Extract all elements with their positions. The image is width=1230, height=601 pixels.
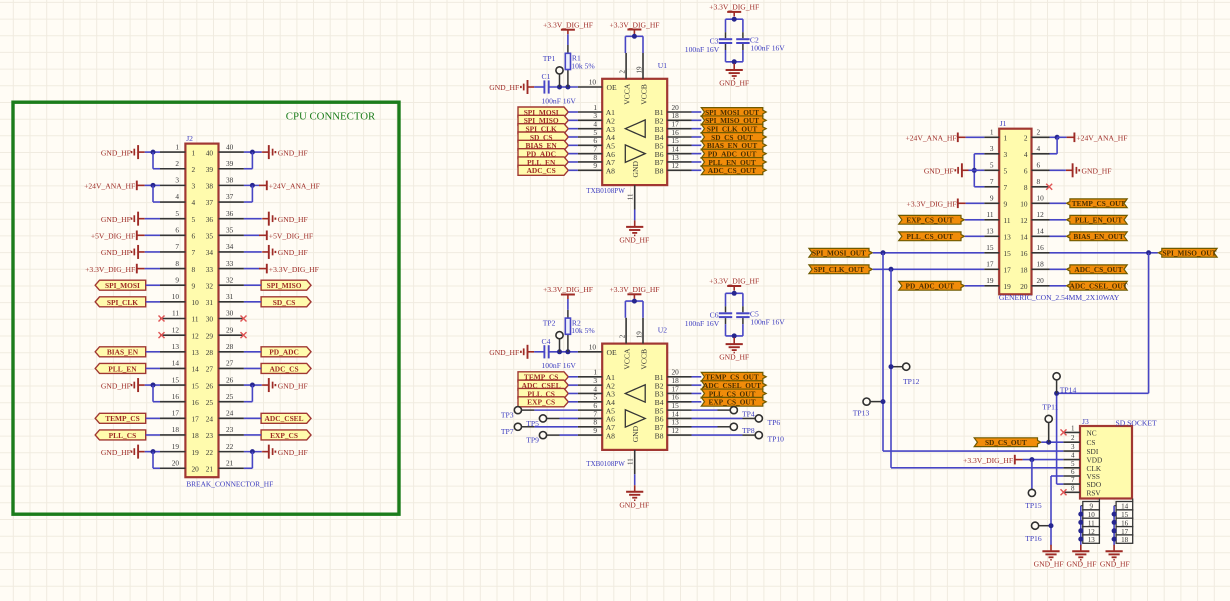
svg-text:+5V_DIG_HF: +5V_DIG_HF	[269, 232, 313, 241]
svg-text:ADC_CS_OUT: ADC_CS_OUT	[1074, 265, 1122, 274]
power port GND_HF (bars)	[955, 163, 968, 177]
port ADC_CS	[261, 363, 311, 373]
wire	[244, 367, 261, 369]
wire	[244, 168, 253, 170]
wire	[244, 268, 260, 270]
svg-text:18: 18	[192, 431, 200, 440]
svg-text:40: 40	[206, 148, 214, 157]
test point TP14	[1053, 373, 1060, 380]
port SPI_CLK_OUT	[701, 124, 766, 133]
svg-text:32: 32	[206, 281, 214, 290]
J3 mount pins 14-18	[1114, 502, 1133, 545]
svg-text:TP7: TP7	[501, 427, 514, 436]
connector J3 body	[1080, 426, 1132, 499]
svg-text:39: 39	[206, 165, 214, 174]
wire	[244, 301, 261, 303]
svg-text:18: 18	[1121, 536, 1129, 544]
test point TP1	[556, 67, 563, 74]
port TEMP_CS_OUT	[1067, 199, 1128, 208]
svg-text:6: 6	[1024, 167, 1028, 176]
port PLL_EN	[95, 363, 146, 373]
svg-text:BIAS_EN_OUT: BIAS_EN_OUT	[1073, 232, 1123, 241]
junction	[250, 150, 255, 155]
wire	[692, 417, 743, 419]
svg-text:7: 7	[1004, 183, 1008, 192]
wire	[1098, 499, 1100, 502]
junction	[889, 267, 894, 272]
port SPI_MOSI_OUT	[809, 248, 873, 257]
svg-text:GND_HF: GND_HF	[101, 448, 131, 457]
pins B1-B8 of U1	[655, 103, 692, 176]
wire	[1050, 153, 1058, 155]
power port GND_HF (bars)	[132, 212, 145, 226]
wire	[568, 144, 578, 146]
junction	[565, 85, 570, 90]
svg-text:PLL_CS_OUT: PLL_CS_OUT	[907, 232, 954, 241]
svg-text:10: 10	[172, 292, 180, 301]
connector J2 body	[185, 144, 218, 478]
svg-text:VCCA: VCCA	[622, 83, 631, 105]
junction	[889, 364, 894, 369]
wire	[145, 184, 160, 186]
wire	[251, 185, 253, 202]
junction	[881, 250, 886, 255]
power port GND_HF (bars)	[262, 378, 275, 392]
wire	[146, 417, 160, 419]
svg-text:11: 11	[627, 193, 635, 200]
svg-text:33: 33	[226, 259, 234, 268]
power port GND_HF (earth)	[1072, 545, 1089, 560]
svg-text:PLL_EN_OUT: PLL_EN_OUT	[1075, 216, 1123, 225]
CPU connector green box	[13, 102, 399, 514]
wire	[244, 218, 262, 220]
wire	[251, 385, 253, 402]
junction	[151, 383, 156, 388]
svg-text:11: 11	[627, 458, 635, 465]
svg-text:GND: GND	[631, 161, 640, 178]
svg-text:19: 19	[636, 66, 644, 74]
no-ERC cross	[1061, 489, 1067, 495]
svg-text:17: 17	[192, 415, 200, 424]
port SPI_CLK	[518, 124, 568, 134]
svg-text:TP13: TP13	[853, 409, 870, 418]
wire	[567, 34, 569, 45]
wire	[726, 18, 743, 20]
wire	[244, 234, 260, 236]
wire	[152, 452, 154, 469]
IC U2 body	[602, 344, 667, 450]
svg-text:18: 18	[172, 425, 180, 434]
no-ERC cross	[241, 316, 247, 322]
svg-text:12: 12	[192, 331, 200, 340]
svg-text:20: 20	[1037, 276, 1045, 285]
junction	[732, 291, 737, 296]
svg-text:GND_HF: GND_HF	[719, 352, 749, 361]
svg-text:+5V_DIG_HF: +5V_DIG_HF	[91, 232, 135, 241]
svg-text:ADC_CS: ADC_CS	[269, 364, 298, 373]
svg-text:13: 13	[172, 342, 180, 351]
junction	[1078, 520, 1083, 525]
svg-text:+3.3V_DIG_HF: +3.3V_DIG_HF	[963, 456, 1013, 465]
svg-text:22: 22	[226, 442, 234, 451]
svg-text:14: 14	[172, 359, 180, 368]
svg-text:TEMP_CS: TEMP_CS	[105, 414, 140, 423]
wire	[725, 19, 727, 32]
svg-text:CS: CS	[1087, 438, 1096, 447]
wire	[692, 392, 702, 394]
J3 mount pins 9-13	[1081, 502, 1100, 545]
svg-text:VCCA: VCCA	[622, 348, 631, 370]
port SD_CS	[518, 132, 568, 142]
wire	[1080, 506, 1082, 546]
power port GND_HF (earth)	[1106, 545, 1123, 560]
svg-text:13: 13	[192, 348, 200, 357]
port BIAS_EN	[95, 347, 146, 357]
wire	[534, 351, 544, 353]
svg-text:12: 12	[672, 161, 680, 170]
svg-text:19: 19	[172, 442, 180, 451]
svg-text:17: 17	[986, 260, 994, 269]
svg-text:2: 2	[175, 159, 179, 168]
port PD_ADC	[518, 149, 568, 159]
svg-text:SPI_CLK: SPI_CLK	[107, 298, 138, 307]
port BIAS_EN_OUT	[1067, 232, 1128, 241]
svg-text:B8: B8	[655, 431, 664, 440]
buffer triangle (left-pointing)	[625, 385, 645, 402]
svg-text:100nF 16V: 100nF 16V	[750, 43, 785, 52]
wire	[1081, 521, 1083, 523]
port ADC_CSEL_OUT	[1067, 281, 1128, 290]
svg-text:17: 17	[1004, 266, 1012, 275]
svg-text:7: 7	[175, 242, 179, 251]
power port (bar)	[1067, 133, 1075, 143]
wire	[534, 86, 544, 88]
port TEMP_CS	[518, 372, 568, 382]
power port (bar)	[958, 133, 966, 143]
wire	[146, 367, 160, 369]
junction	[557, 85, 562, 90]
junction	[151, 150, 156, 155]
svg-text:31: 31	[206, 298, 214, 307]
svg-text:16: 16	[1037, 243, 1045, 252]
svg-text:TP12: TP12	[903, 377, 920, 386]
net SPI_MOSI wire (J1.15 to J3.SDI)	[882, 253, 884, 451]
test point TP6	[755, 415, 762, 422]
svg-text:TP6: TP6	[768, 418, 781, 427]
svg-text:C1: C1	[542, 72, 551, 81]
svg-text:RSV: RSV	[1087, 488, 1102, 497]
wire	[568, 153, 578, 155]
wire	[974, 153, 984, 155]
svg-text:GENERIC_CON_2.54MM_2X10WAY: GENERIC_CON_2.54MM_2X10WAY	[999, 293, 1120, 302]
wire	[244, 251, 262, 253]
svg-text:GND_HF: GND_HF	[1100, 559, 1130, 568]
power port (bar)	[1015, 455, 1023, 465]
svg-text:+3.3V_DIG_HF: +3.3V_DIG_HF	[543, 285, 593, 294]
svg-text:35: 35	[206, 232, 214, 241]
wire	[153, 201, 160, 203]
wire	[743, 417, 756, 419]
wire	[251, 152, 253, 169]
wire	[1050, 136, 1058, 138]
svg-text:GND_HF: GND_HF	[278, 148, 308, 157]
port SPI_CLK_OUT	[809, 265, 873, 274]
wire	[560, 417, 578, 419]
wire	[560, 434, 578, 436]
svg-text:19: 19	[986, 276, 994, 285]
svg-text:OE: OE	[607, 83, 617, 92]
wire	[692, 136, 702, 138]
svg-text:16: 16	[192, 398, 200, 407]
power port GND_HF (bars)	[1066, 163, 1079, 177]
svg-text:1: 1	[175, 142, 179, 151]
svg-text:15: 15	[172, 375, 180, 384]
svg-text:EXP_CS_OUT: EXP_CS_OUT	[906, 216, 953, 225]
wire	[742, 50, 744, 62]
port ADC_CS_OUT	[701, 166, 766, 175]
wire	[568, 161, 578, 163]
pin 19 VCCB of U1	[636, 53, 649, 105]
wire	[718, 409, 731, 411]
svg-text:OE: OE	[607, 348, 617, 357]
svg-text:8: 8	[1071, 484, 1075, 492]
test point TP10	[755, 432, 762, 439]
svg-text:B8: B8	[655, 167, 664, 176]
wire	[567, 299, 569, 310]
svg-text:5: 5	[175, 209, 179, 218]
svg-text:GND_HF: GND_HF	[619, 236, 649, 245]
svg-text:4: 4	[175, 192, 179, 201]
wire	[870, 401, 883, 403]
svg-text:3: 3	[192, 182, 196, 191]
wire	[692, 434, 743, 436]
svg-text:SPI_MISO_OUT: SPI_MISO_OUT	[1162, 249, 1216, 258]
wire	[625, 35, 643, 37]
svg-text:2: 2	[192, 165, 196, 174]
svg-text:A8: A8	[606, 167, 615, 176]
junction	[1112, 512, 1117, 517]
svg-text:29: 29	[206, 331, 214, 340]
wire	[244, 451, 262, 453]
wire	[244, 434, 261, 436]
wire	[1039, 525, 1052, 527]
test point TP9	[539, 432, 546, 439]
wire	[1114, 530, 1116, 532]
port PLL_CS	[518, 388, 568, 398]
capacitor C4	[542, 337, 577, 370]
capacitor C3	[685, 37, 732, 54]
wire	[145, 268, 160, 270]
svg-text:GND_HF: GND_HF	[1034, 559, 1064, 568]
svg-text:GND_HF: GND_HF	[101, 148, 131, 157]
svg-text:37: 37	[206, 198, 214, 207]
port BIAS_EN_OUT	[701, 141, 766, 150]
svg-text:C4: C4	[542, 337, 551, 346]
junction	[1078, 512, 1083, 517]
svg-text:BREAK_CONNECTOR_HF: BREAK_CONNECTOR_HF	[186, 480, 273, 489]
pin 2 VCCA of U1	[619, 53, 632, 105]
svg-text:28: 28	[226, 342, 234, 351]
svg-text:GND_HF: GND_HF	[924, 167, 954, 176]
svg-text:ADC_CS: ADC_CS	[527, 166, 556, 175]
wire	[692, 401, 702, 403]
svg-text:PD_ADC_OUT: PD_ADC_OUT	[906, 282, 955, 291]
wire	[244, 284, 261, 286]
svg-text:13: 13	[1088, 536, 1096, 544]
wire	[568, 111, 578, 113]
svg-text:+3.3V_DIG_HF: +3.3V_DIG_HF	[269, 265, 319, 274]
wire	[1113, 506, 1115, 546]
power port GND_HF (bars)	[262, 212, 275, 226]
svg-text:14: 14	[1020, 233, 1028, 242]
buffer triangle (right-pointing)	[625, 145, 645, 162]
wire	[152, 385, 154, 402]
wire	[725, 324, 727, 336]
wire	[152, 185, 154, 202]
wire	[634, 474, 636, 485]
svg-text:37: 37	[226, 192, 234, 201]
wire	[568, 119, 578, 121]
svg-text:GND_HF: GND_HF	[1082, 167, 1112, 176]
wire	[965, 219, 984, 221]
junction	[250, 383, 255, 388]
wire	[1050, 235, 1067, 237]
wire	[692, 144, 702, 146]
junction	[1055, 135, 1060, 140]
wire	[742, 306, 744, 312]
svg-text:10k 5%: 10k 5%	[571, 61, 595, 70]
junction	[632, 299, 637, 304]
net SPI_MISO wire (J1.16 to J3.SDO)	[1148, 253, 1150, 393]
wire	[742, 19, 744, 32]
port ADC_CSEL	[518, 380, 568, 390]
wire	[692, 409, 718, 411]
svg-text:GND_HF: GND_HF	[489, 83, 519, 92]
wire	[1132, 499, 1134, 502]
test point TP2	[556, 332, 563, 339]
svg-text:26: 26	[226, 375, 234, 384]
svg-text:4: 4	[1071, 452, 1075, 460]
wire	[244, 417, 261, 419]
wire	[965, 285, 984, 287]
wire	[153, 467, 160, 469]
power port +3.3V_DIG_HF (bar)	[627, 294, 641, 299]
port SPI_MISO_OUT	[701, 116, 766, 125]
J3 pins 1-8	[1063, 424, 1102, 497]
wire	[692, 119, 702, 121]
svg-text:GND_HF: GND_HF	[101, 248, 131, 257]
wire	[974, 186, 984, 188]
wire	[559, 74, 561, 87]
junction	[732, 59, 737, 64]
svg-text:100nF 16V: 100nF 16V	[542, 96, 577, 105]
svg-text:EXP_CS: EXP_CS	[527, 398, 555, 407]
J1 even pins (right)	[1020, 128, 1049, 292]
junction	[1146, 250, 1151, 255]
wire	[145, 234, 160, 236]
svg-text:TXB0108PW: TXB0108PW	[586, 459, 625, 468]
port EXP_CS	[261, 430, 311, 440]
svg-text:11: 11	[172, 309, 179, 318]
svg-text:3: 3	[990, 144, 994, 153]
svg-text:9: 9	[593, 161, 597, 170]
wire	[1031, 460, 1033, 490]
svg-text:31: 31	[226, 292, 234, 301]
svg-text:ADC_CSEL_OUT: ADC_CSEL_OUT	[1070, 282, 1128, 291]
svg-text:U1: U1	[658, 61, 667, 70]
svg-text:TP10: TP10	[768, 434, 785, 443]
svg-text:15: 15	[192, 381, 200, 390]
svg-text:TP4: TP4	[742, 409, 755, 418]
svg-text:TP11: TP11	[1042, 402, 1058, 411]
wire	[1081, 513, 1083, 515]
junction	[565, 349, 570, 354]
port SPI_MOSI	[518, 107, 568, 117]
wire	[546, 417, 559, 419]
wire	[146, 301, 160, 303]
svg-text:8: 8	[192, 265, 196, 274]
svg-text:SD SOCKET: SD SOCKET	[1116, 419, 1158, 428]
svg-text:22: 22	[206, 448, 214, 457]
junction	[250, 449, 255, 454]
svg-text:TP14: TP14	[1060, 385, 1077, 394]
resistor R2	[565, 310, 595, 352]
wire	[692, 111, 702, 113]
svg-text:20: 20	[1020, 282, 1028, 291]
wire	[873, 252, 984, 254]
svg-text:19: 19	[1004, 282, 1012, 291]
svg-text:SPI_MOSI: SPI_MOSI	[105, 281, 140, 290]
svg-text:7: 7	[990, 177, 994, 186]
wire	[521, 426, 534, 428]
svg-text:SD_CS: SD_CS	[273, 298, 296, 307]
IC U1 body	[602, 79, 667, 185]
svg-text:30: 30	[226, 309, 234, 318]
svg-text:+3.3V_DIG_HF: +3.3V_DIG_HF	[609, 20, 659, 29]
no-ERC cross	[159, 316, 165, 322]
svg-text:CPU CONNECTOR: CPU CONNECTOR	[286, 110, 376, 122]
wire	[1081, 530, 1083, 532]
svg-text:+3.3V_DIG_HF: +3.3V_DIG_HF	[709, 2, 759, 11]
wire	[1114, 538, 1116, 540]
junction	[557, 349, 562, 354]
port ADC_CS_OUT	[1067, 265, 1128, 274]
svg-text:34: 34	[226, 242, 234, 251]
svg-text:+24V_ANA_HF: +24V_ANA_HF	[84, 182, 135, 191]
svg-text:ADC_CSEL: ADC_CSEL	[265, 414, 304, 423]
wire	[145, 151, 160, 153]
power port GND_HF (earth)	[626, 485, 643, 500]
wire	[742, 44, 744, 50]
power port GND_HF (bars)	[132, 445, 145, 459]
wire	[1056, 380, 1058, 394]
svg-text:25: 25	[206, 398, 214, 407]
wire	[244, 151, 262, 153]
svg-text:5: 5	[192, 215, 196, 224]
port PLL_CS_OUT	[701, 389, 766, 398]
wire	[1114, 505, 1116, 507]
port TEMP_CS_OUT	[701, 372, 766, 381]
svg-text:6: 6	[1037, 161, 1041, 170]
svg-text:1: 1	[1004, 134, 1008, 143]
port PD_ADC_OUT	[701, 149, 766, 158]
svg-text:GND_HF: GND_HF	[619, 500, 649, 509]
wire	[559, 339, 561, 352]
wire	[725, 50, 727, 62]
svg-text:15: 15	[1004, 249, 1012, 258]
port EXP_CS_OUT	[701, 397, 766, 406]
junction	[732, 17, 737, 22]
